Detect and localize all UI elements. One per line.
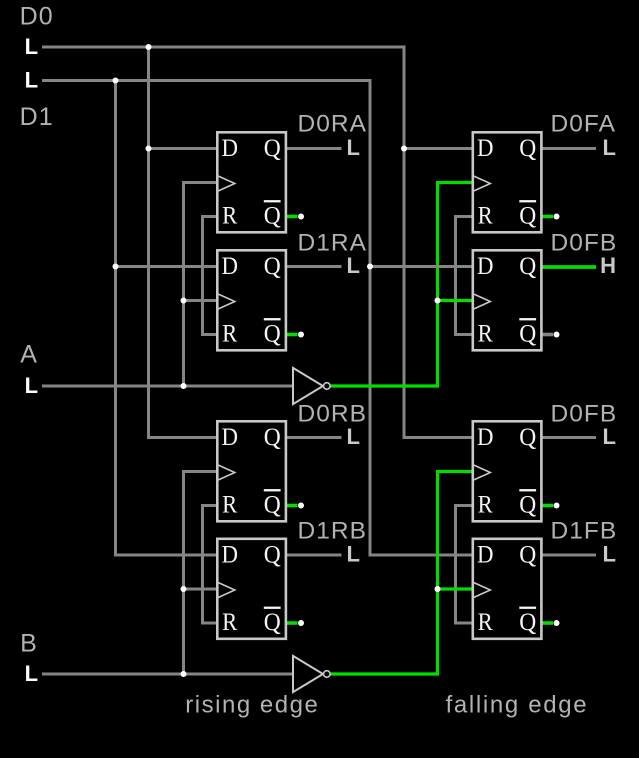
svg-text:Q: Q bbox=[519, 135, 536, 162]
wire D1RA.Qn stub (high) bbox=[287, 333, 298, 337]
wire D0FA.Q output stub (low) bbox=[543, 147, 597, 150]
wire net B branch to D1RB clock bbox=[184, 588, 217, 591]
wire inverted clock B (high) to lower D0FB clock bbox=[330, 472, 472, 675]
flip-flop D0RA (D flip-flop, box with D/C/R inputs and Q/Qn outputs) bbox=[217, 132, 286, 232]
flip-flop D1RB (D flip-flop, box with D/C/R inputs and Q/Qn outputs) bbox=[217, 539, 286, 639]
node D0 junction at top wire bbox=[146, 44, 152, 50]
node A junction at input wire bbox=[181, 383, 187, 389]
node B junction at input wire bbox=[181, 671, 187, 677]
wire D0RB.Qn stub (high) bbox=[287, 504, 298, 508]
wire D0FA.Qn stub (high) bbox=[543, 215, 554, 219]
svg-text:R: R bbox=[478, 609, 493, 636]
svg-text:L: L bbox=[603, 542, 616, 567]
svg-text:Q: Q bbox=[264, 542, 281, 569]
wire reset link D0FA.R to upper D0FB.R bbox=[456, 217, 472, 335]
svg-text:Q: Q bbox=[519, 202, 536, 229]
svg-text:Q: Q bbox=[264, 253, 281, 280]
node open end D1RA.Qn bbox=[298, 332, 304, 338]
svg-text:D1: D1 bbox=[20, 103, 53, 131]
node inverted-A junction to upper D0FB clock bbox=[435, 298, 441, 304]
node D1 junction at top wire bbox=[113, 78, 119, 84]
flip-flop D0FA (D flip-flop, box with D/C/R inputs and Q/Qn outputs) bbox=[473, 132, 542, 232]
wire D1FB.Q output stub (low) bbox=[543, 554, 597, 557]
wire D1RA.Q output stub (low) bbox=[287, 265, 342, 268]
wire lower D0FB.Q output stub (low) bbox=[543, 436, 597, 439]
wire reset link D0RB.R to D1RB.R bbox=[203, 506, 217, 624]
wire net D0 branch to D0RA.D bbox=[149, 147, 217, 150]
wire net D0 branch to D0FA.D bbox=[404, 147, 472, 150]
svg-text:Q: Q bbox=[264, 135, 281, 162]
node open end upper D0FB.Qn bbox=[554, 332, 560, 338]
svg-text:Q: Q bbox=[519, 320, 536, 347]
clock edge triangle of D0FA bbox=[474, 176, 490, 191]
wire net D0 left branch down to D0RB.D bbox=[149, 47, 217, 438]
clock edge triangle of D1RB bbox=[218, 583, 234, 598]
wire net B clock riser to D0RB clock bbox=[184, 472, 217, 675]
clock edge triangle of D0RB bbox=[218, 465, 234, 480]
node B clock junction to D1RB clock bbox=[181, 586, 187, 592]
svg-text:Q: Q bbox=[519, 609, 536, 636]
svg-text:L: L bbox=[347, 135, 360, 160]
svg-text:L: L bbox=[603, 424, 616, 449]
wire reset link lower D0FB.R to D1FB.R bbox=[456, 506, 472, 624]
clock edge triangle of D0FB (lower) bbox=[474, 465, 490, 480]
node D1 junction to D1RA.D bbox=[113, 264, 119, 270]
svg-text:R: R bbox=[222, 320, 237, 347]
wire net D0: from input along top, down right side to D input of lower D0FB bbox=[42, 47, 472, 438]
flip-flop D0FB (lower) (D flip-flop, box with D/C/R inputs and Q/Qn outputs) bbox=[473, 421, 542, 521]
svg-text:H: H bbox=[600, 253, 616, 278]
svg-text:D: D bbox=[222, 424, 239, 451]
wire net B: input to inverter bbox=[42, 673, 293, 676]
wire net D1 branch to D input of upper D0FB bbox=[370, 265, 472, 268]
node open end D1RB.Qn bbox=[298, 620, 304, 626]
node D1 junction to upper D0FB.D bbox=[367, 264, 373, 270]
wire D1FB.Qn stub (high) bbox=[543, 621, 554, 625]
flip-flop D1FB (D flip-flop, box with D/C/R inputs and Q/Qn outputs) bbox=[473, 539, 542, 639]
wire upper D0FB.Qn stub (low) bbox=[543, 333, 554, 337]
wire reset link D0RA.R to D1RA.R bbox=[203, 217, 217, 335]
flip-flop D0FB (upper) (D flip-flop, box with D/C/R inputs and Q/Qn outputs) bbox=[473, 250, 542, 350]
svg-text:B: B bbox=[20, 629, 37, 657]
svg-text:L: L bbox=[25, 373, 38, 398]
svg-text:D: D bbox=[477, 424, 494, 451]
svg-text:R: R bbox=[478, 491, 493, 518]
node open end lower D0FB.Qn bbox=[554, 503, 560, 509]
node D0 junction to D0FA.D bbox=[401, 146, 407, 152]
wire D1RB.Qn stub (high) bbox=[287, 621, 298, 625]
inverter on clock B (makes falling-edge clock) bbox=[293, 656, 330, 692]
wire net A clock riser to D0RA clock bbox=[184, 183, 217, 387]
svg-text:R: R bbox=[222, 609, 237, 636]
node open end D0RA.Qn bbox=[298, 214, 304, 220]
svg-text:D: D bbox=[222, 253, 239, 280]
svg-text:falling edge: falling edge bbox=[446, 692, 587, 719]
svg-text:Q: Q bbox=[264, 424, 281, 451]
wire inverted clock A (high) to D0FA clock bbox=[330, 183, 472, 387]
svg-text:D: D bbox=[477, 135, 494, 162]
svg-text:L: L bbox=[347, 542, 360, 567]
wire net A branch to D1RA clock bbox=[184, 299, 217, 302]
svg-text:D1FB: D1FB bbox=[551, 517, 618, 544]
wire net D1 left branch down to D1RB.D bbox=[116, 81, 217, 556]
wire net D1 branch to D1RA.D bbox=[116, 265, 217, 268]
svg-text:Q: Q bbox=[519, 253, 536, 280]
flip-flop D0RB (D flip-flop, box with D/C/R inputs and Q/Qn outputs) bbox=[217, 421, 286, 521]
svg-text:R: R bbox=[478, 202, 493, 229]
wire D0RA.Qn stub (high) bbox=[287, 215, 298, 219]
node open end D0RB.Qn bbox=[298, 503, 304, 509]
svg-text:D0: D0 bbox=[20, 3, 53, 31]
wire D0RB.Q output stub (low) bbox=[287, 436, 342, 439]
svg-text:Q: Q bbox=[264, 320, 281, 347]
clock edge triangle of D1FB bbox=[474, 583, 490, 598]
svg-text:D0FA: D0FA bbox=[551, 111, 616, 138]
wire lower D0FB.Qn stub (high) bbox=[543, 504, 554, 508]
svg-text:Q: Q bbox=[264, 202, 281, 229]
svg-text:D0RA: D0RA bbox=[298, 111, 368, 138]
svg-text:R: R bbox=[222, 202, 237, 229]
svg-text:R: R bbox=[478, 320, 493, 347]
node open end D1FB.Qn bbox=[554, 620, 560, 626]
wire inverted clock B branch to D1FB clock bbox=[438, 587, 472, 590]
svg-text:L: L bbox=[25, 661, 38, 686]
node D0 junction to D0RA.D bbox=[146, 146, 152, 152]
svg-text:D: D bbox=[477, 542, 494, 569]
wire D1RB.Q output stub (low) bbox=[287, 554, 342, 557]
svg-text:Q: Q bbox=[519, 491, 536, 518]
flip-flop D1RA (D flip-flop, box with D/C/R inputs and Q/Qn outputs) bbox=[217, 250, 286, 350]
node inverted-B junction to D1FB clock bbox=[435, 586, 441, 592]
svg-text:D: D bbox=[222, 135, 239, 162]
clock edge triangle of D1RA bbox=[218, 294, 234, 309]
svg-text:L: L bbox=[347, 253, 360, 278]
svg-text:D1RB: D1RB bbox=[298, 517, 368, 544]
svg-text:D: D bbox=[477, 253, 494, 280]
svg-text:L: L bbox=[347, 424, 360, 449]
svg-text:A: A bbox=[20, 340, 37, 368]
svg-text:D: D bbox=[222, 542, 239, 569]
svg-text:R: R bbox=[222, 491, 237, 518]
inverter on clock A (makes falling-edge clock) bbox=[293, 368, 330, 404]
node open end D0FA.Qn bbox=[554, 214, 560, 220]
wire net D1: from input, down to D1FB.D bbox=[42, 81, 472, 556]
svg-text:L: L bbox=[25, 34, 38, 59]
svg-text:Q: Q bbox=[519, 424, 536, 451]
clock edge triangle of D0RA bbox=[218, 176, 234, 191]
node A clock junction to D1RA clock bbox=[181, 298, 187, 304]
clock edge triangle of D0FB (upper) bbox=[474, 294, 490, 309]
wire D0RA.Q output stub (low) bbox=[287, 147, 342, 150]
wire net A: input to inverter bbox=[42, 385, 293, 388]
svg-text:rising edge: rising edge bbox=[185, 692, 318, 719]
svg-text:L: L bbox=[603, 135, 616, 160]
svg-text:Q: Q bbox=[519, 542, 536, 569]
wire upper D0FB.Q output stub (high) bbox=[543, 265, 597, 269]
wire inverted clock A branch to upper D0FB clock bbox=[438, 299, 472, 302]
svg-text:Q: Q bbox=[264, 609, 281, 636]
svg-text:L: L bbox=[25, 67, 38, 92]
svg-text:Q: Q bbox=[264, 491, 281, 518]
